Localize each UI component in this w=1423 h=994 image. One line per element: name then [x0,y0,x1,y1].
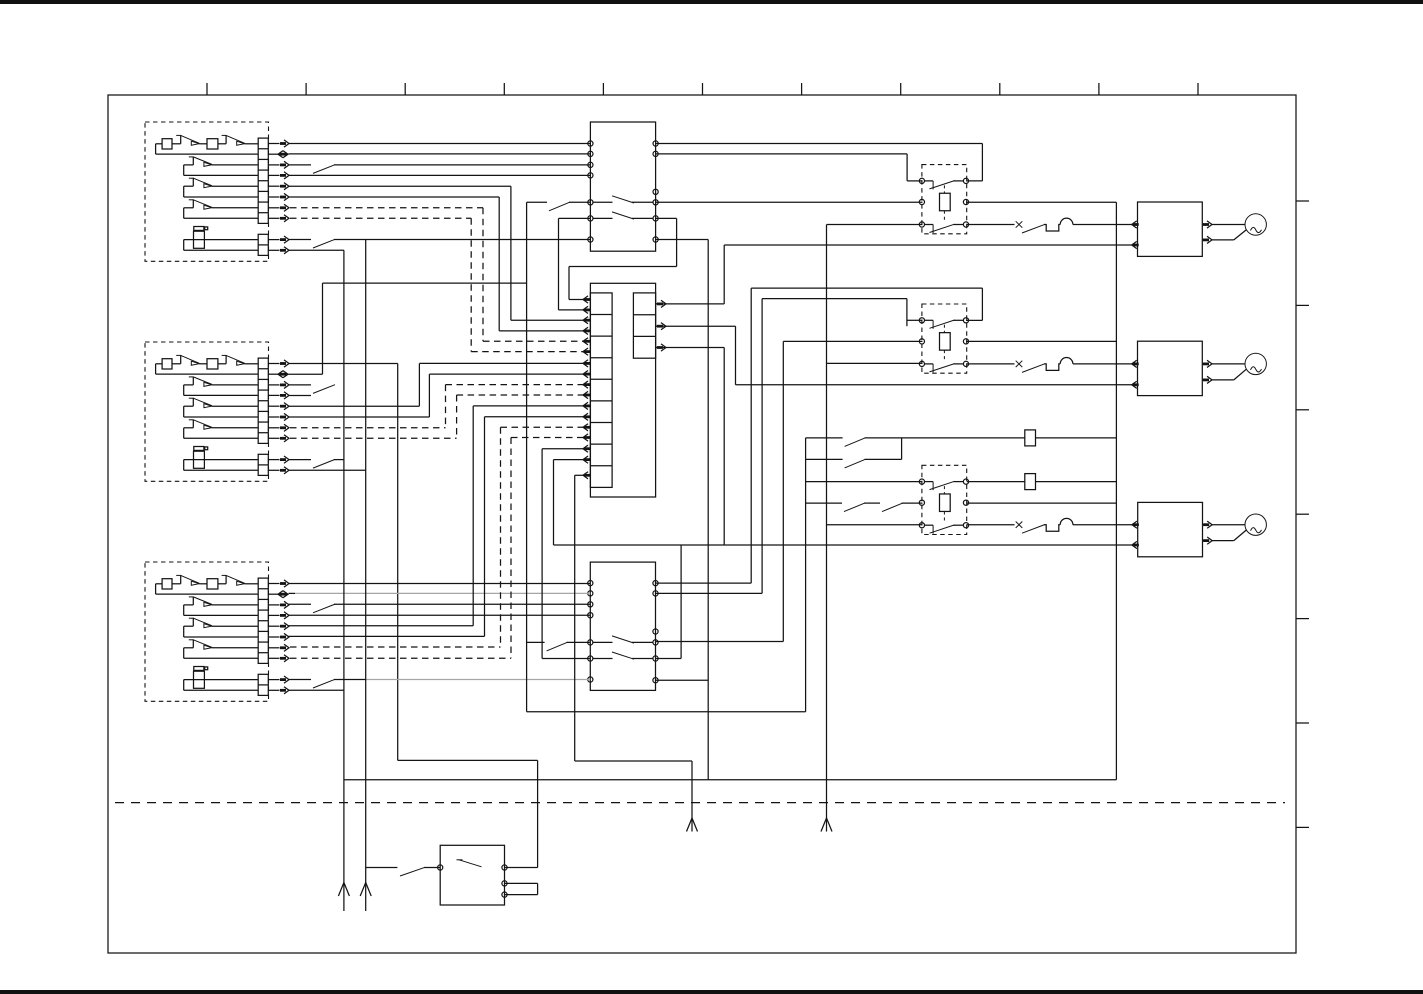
connector block B outline [590,283,655,497]
isolator switch [1022,224,1045,233]
thermal overload element [1044,225,1060,232]
wire box1 row5 riser to block B pin 320 [289,186,584,320]
proximity sensor B20 body [194,447,208,469]
wire relay K3 top contact feed y482 [806,481,1117,483]
wire S2 rows 5-6 loop [184,406,259,417]
limit switch B34 contact [189,618,212,628]
contactor K3 coil [919,494,968,512]
riser box2 row2 up to bus y283 [322,283,324,374]
limit-switch group box S3 (dashed enclosure) [145,562,269,701]
sensor wires S2 (bottom rows) [184,460,259,471]
block A internal contact K-A1 [593,196,654,203]
riser block A pin 218 to block B pin 310 [559,218,591,310]
motor circuit 1 row [967,224,1015,226]
wire C out 680 to riser x708 [656,679,709,681]
terminal strip X3a (8-pole) [258,578,268,663]
isolator switch [1022,525,1045,534]
switch feed to block A pin 202 [527,202,591,211]
limit switch B14 contact [189,178,212,188]
fuse F2 [1025,474,1036,490]
wire B out1 to drive G1 input2 [656,245,1132,304]
wire drive G1 to motor [1212,225,1246,240]
wire B out2 to riser x736 [656,326,736,385]
riser block B pin 449 to block C pin 658 [542,449,590,659]
wire S3 row1 internal loop [156,584,259,594]
wire box2 row5 riser to block B pin 363 [289,363,584,406]
wire S2 rows 3-4 loop [184,385,259,396]
terminal strip X1a (8-pole) [258,138,268,223]
service box link pins [502,881,538,897]
terminal strip X2b (2-pole) [258,454,268,475]
wire box2 row4 stub [289,395,312,397]
door switch B12 body [207,139,218,149]
wire S3 rows 3-4 loop [184,605,259,616]
wire box1 row6 riser to block B pin 331 [289,197,584,331]
limit switch B24 contact [189,398,212,408]
block A internal contact K-A2 [593,212,654,219]
wire box1 row4 to A4 [289,174,591,176]
drive G2 input markers [1132,360,1139,388]
wire C out 583 riser x751 to contactor K2 [656,288,983,583]
ground arrow 1 [338,883,349,897]
block B left terminal column [590,293,612,488]
wire box2 sensor row2 to ground riser [289,469,366,471]
dashed wire box2 row7 riser to block B pin 385 [290,385,584,428]
right edge tick marks [1296,201,1309,827]
switch feed to block C pin 642 [527,642,591,651]
motor circuit 2 row [967,363,1015,365]
wire box3 row6 riser to block B pin 417 [289,417,584,637]
terminal strip X1b (2-pole) [258,234,268,255]
contactor K1 coil [919,193,968,211]
drive G1 output markers [1202,221,1212,244]
wire box3 row5 riser to block B pin 406 [289,406,584,626]
wire A pin239 to riser x708 [656,240,709,780]
wire A out2 to contactor K1 left [656,154,923,181]
wire box2 sensor row1 with switch to ground riser [289,459,345,468]
wire contactor K3 bottom feed [827,524,923,526]
wire C out 642 riser x783 to contactor K2 coil [656,341,923,641]
motor M2 [1245,353,1266,374]
service box output to riser [505,867,538,869]
block C internal contact K-C1 [593,636,654,643]
coil wire K3 with two switches y503 [806,503,1117,512]
service box left pin [438,865,443,870]
drawing frame [108,95,1296,953]
thermal overload element [1044,364,1060,371]
terminal strip X2a (8-pole) [258,358,268,443]
wire box1 row1 to A1 [289,143,591,145]
motor drive G1 box [1138,202,1203,256]
wire box1 sensor row2 to ground riser [289,249,344,251]
door switch B11 actuator [176,135,199,145]
proximity sensor B10 body [194,227,208,249]
ground arrow 3 [687,818,698,832]
sensor wires S1 (bottom rows) [184,240,259,251]
wire box3 row3 segment + switch to C3 [289,604,591,613]
wire bus y283 to main vertical [323,282,527,284]
door switch B12 actuator [222,135,245,145]
terminal X1 outgoing wire markers [268,140,289,254]
contactor K1 bottom contact [919,222,968,233]
riser box2 row1 down to service switch feed [397,364,399,761]
bottom border bar [0,990,1423,994]
branch y545 down to block C pin 658 [656,545,682,659]
wire B out3 to riser x724 [656,348,725,546]
wire S2 rows 7-8 loop [184,428,259,439]
contactor K1 top contact [919,178,968,189]
riser block B pin 475 to ground path [575,475,584,761]
wire contactor K2 bottom feed [827,362,923,364]
wire S2 row1 internal loop [156,364,259,374]
link wire y266 and riser to block B pin 300 [569,218,677,299]
dashed wire box3 row7 riser to block B pin 427 [290,427,584,647]
service box input wire with switch [366,867,441,876]
connector block C outline [590,562,655,690]
wire S1 row1 internal loop [156,144,259,154]
limit switch B25 contact [189,419,212,429]
wire box1 sensor row1 with switch to A pin 239 [289,239,591,248]
wire drive G2 to motor [1212,364,1246,380]
service box right pin [502,865,507,870]
wire box2 row3 stub with open switch [289,385,336,394]
wire to drive input [1073,524,1138,526]
motor drive G2 box [1138,341,1203,395]
limit switch B13 contact [189,157,212,167]
contactor K2 linkage [943,325,945,362]
sensor wires S3 (bottom rows) [184,680,259,691]
proximity sensor B30 body [194,667,208,689]
wire S1 rows 3-4 loop [184,165,259,176]
wire box3 row4 to C4 [289,614,591,616]
dashed wire box1 row8 riser to block B pin 352 [290,218,584,351]
disconnect x-mark [1016,361,1023,367]
ground branch path right [575,761,692,832]
drive G3 output markers [1203,521,1213,544]
limit switch B33 contact [189,597,212,607]
connector block A outline [590,122,655,251]
wire box3 sensor row1 with switch, gray run to C pin 679 [289,679,591,688]
terminal strip X3b (2-pole) [258,674,268,695]
ground riser left (x344) [343,250,345,911]
wire S1 rows 7-8 loop [184,208,259,219]
coil wire K1 row y202 [656,201,1117,203]
limit switch B35 contact [189,639,212,649]
limit-switch group box S1 (dashed enclosure) [145,122,269,261]
dashed field separator line [115,802,1285,804]
contactor K3 dashed enclosure [922,465,967,534]
limit-switch group box S2 (dashed enclosure) [145,342,269,481]
contactor K3 top contact [919,479,968,490]
door switch B22 body [207,359,218,369]
wire S3 rows 5-6 loop [184,626,259,637]
wire S1 rows 5-6 loop [184,186,259,197]
wire y545 to drive G3 input2 [554,544,1132,546]
fuse F1 [1025,430,1036,446]
motor circuit 3 row [967,524,1015,526]
top border bar [0,0,1423,4]
block B right terminal column [633,293,655,358]
wire S3 rows 7-8 loop [184,648,259,659]
disconnect x-mark [1016,221,1023,227]
switch row A y438 [806,438,1117,447]
service box internal switch [457,860,482,867]
door switch B32 body [207,579,218,589]
coil wire K2 out to bus x1116 [966,340,1116,342]
door switch B21 actuator [176,355,199,365]
main power bus vertical x1116 [1115,202,1117,780]
motor drive G3 box [1138,502,1203,556]
motor M1 [1245,214,1266,235]
contactor K2 dashed enclosure [922,304,967,373]
drive G3 input markers [1132,521,1139,549]
block C left pin circles [588,581,593,683]
door switch B32 actuator [222,575,245,585]
ground arrow 2 [360,883,371,897]
contactor K2 bottom contact [919,361,968,372]
ground riser left 2 (x366) [365,240,367,912]
door switch B21 body [162,359,172,369]
wire box1 row3 segment + switch [289,165,591,174]
drive G1 input markers [1132,221,1139,249]
door switch B11 body [162,139,172,149]
contactor K1 linkage [943,185,945,222]
dashed wire box2 row8 riser to block B pin 395 [290,395,584,438]
switch row B y459 [806,438,902,468]
gray wire box3 row2 to C2 [289,592,591,594]
wire box3 row1 to C1 [289,583,591,585]
wire box2 row1 to riser x398 [289,363,398,365]
main switched vertical x527 [526,202,528,712]
dashed wire box3 row8 riser to block B pin 437 [290,438,584,659]
contactor K3 bottom contact [919,523,968,534]
drive G2 output markers [1202,360,1212,383]
power bus return y780 [344,779,1116,781]
limit switch B23 contact [189,377,212,387]
isolator switch [1022,364,1045,373]
block B input pin markers [583,296,590,479]
motor M3 [1245,514,1266,535]
door switch B31 actuator [176,575,199,585]
disconnect x-mark [1016,522,1023,528]
contactor K2 top contact [919,318,968,329]
top edge tick marks [207,83,1198,95]
contactor K2 coil [919,333,968,351]
block B output pin markers [656,300,666,351]
wire to drive input [1073,224,1138,226]
limit switch B15 contact [189,199,212,209]
riser x806 [805,438,807,712]
door switch B31 body [162,579,172,589]
block C internal contact K-C2 [593,652,654,659]
wire contactor K1 bottom feed riser x827 [827,225,923,832]
block A right pin circles [653,141,658,242]
wire box3 sensor row2 to ground riser [289,689,345,691]
wire box2 row6 riser to block B pin 374 [289,374,584,417]
door switch B22 actuator [222,355,245,365]
wire box2 row2 to riser x322 [289,373,323,375]
service switch feed path [398,760,538,867]
terminal X3 outgoing wire markers [268,580,289,694]
link x527 bottom to x806 [527,711,806,713]
dashed wire box1 row7 riser to block B pin 341 [290,208,584,341]
terminal X2 outgoing wire markers [268,360,289,474]
contactor K1 dashed enclosure [922,165,967,234]
riser block B pin 460 to wire y545 [554,460,584,545]
wire box1 row2 to A2 [289,153,591,155]
wire A out1 to contactor K1 [656,144,983,181]
wire C out 593 riser x762 to contactor K2 left [656,299,923,594]
wire to drive input [1073,363,1138,365]
block A left pin circles [588,141,593,242]
block C right pin circles [653,581,658,683]
contactor K3 linkage [943,486,945,523]
wire A pin218 to link x677 [656,217,677,219]
wire drive G2 input2 y385 [736,384,1132,386]
wire drive G3 to motor [1212,525,1246,541]
service/maintenance switch box [440,845,504,905]
ground arrow 4 [821,818,832,832]
thermal overload element [1044,525,1060,532]
